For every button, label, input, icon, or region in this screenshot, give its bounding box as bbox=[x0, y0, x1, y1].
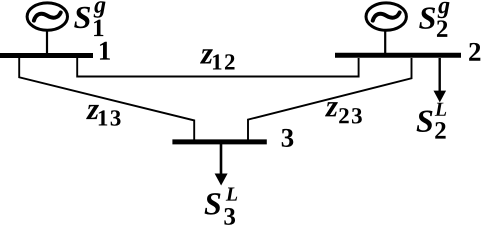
wire z13 bbox=[19, 58, 194, 140]
bus 1 bbox=[0, 53, 93, 58]
label z13 bbox=[86, 105, 120, 126]
label z23 bbox=[325, 102, 362, 123]
bus 2 bbox=[335, 53, 461, 58]
generator U1 bbox=[27, 3, 67, 55]
node label 3 bbox=[282, 129, 294, 147]
generator U2 bbox=[366, 3, 406, 55]
load arrow S2L bbox=[434, 58, 447, 102]
node label 2 bbox=[469, 43, 480, 61]
label S1g bbox=[74, 1, 105, 36]
label S2g bbox=[419, 2, 449, 37]
wire z23 bbox=[248, 58, 412, 140]
label S2L bbox=[417, 103, 447, 139]
node label 1 bbox=[100, 42, 110, 60]
load arrow S3L bbox=[215, 144, 228, 186]
bus 3 bbox=[172, 139, 266, 144]
wire z12 bbox=[77, 58, 358, 77]
label S3L bbox=[205, 188, 238, 225]
label z12 bbox=[200, 49, 234, 69]
